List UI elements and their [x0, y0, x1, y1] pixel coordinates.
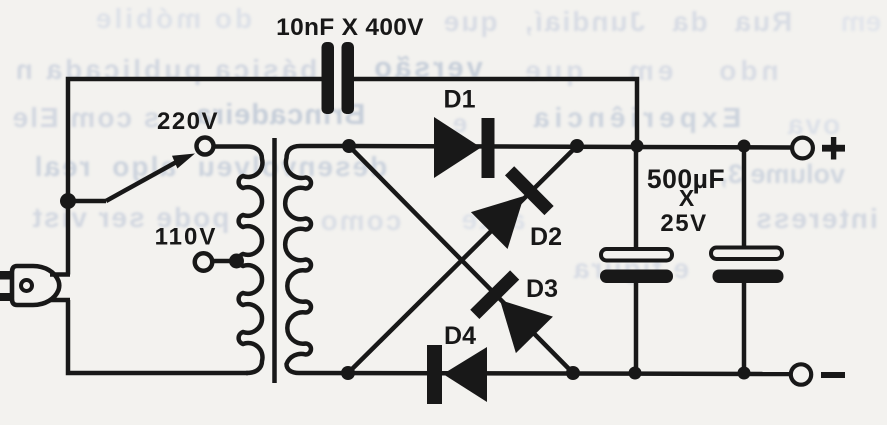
svg-text:D1: D1: [444, 86, 476, 114]
terminal: - output circle: [791, 364, 811, 384]
node: C1 bottom junction: [629, 367, 642, 380]
wire: left bus bottom + primary bottom return: [68, 300, 248, 373]
capacitor C2 500uF bottom plate: [713, 270, 784, 284]
capacitor C1 500uF top plate: [601, 249, 672, 261]
wire: plug bottom lead: [50, 298, 70, 303]
capacitor C1 500uF bottom plate: [600, 270, 673, 284]
svg-text:X: X: [679, 185, 695, 211]
wire: capacitor C2 bottom lead: [742, 282, 747, 373]
wire: capacitor C1 top lead: [634, 146, 639, 250]
node: C2 bottom junction: [738, 367, 751, 380]
switch arrowhead: [172, 154, 195, 169]
capacitor 10nF plates: [322, 42, 355, 114]
svg-text:10nF X 400V: 10nF X 400V: [276, 14, 424, 41]
node C: bridge bottom-left junction: [341, 366, 355, 380]
wire: switch arm to 220V terminal: [106, 160, 180, 201]
wire: DC + top rail: [346, 146, 792, 148]
label: 500uF X 25V: [647, 164, 725, 237]
wire: DC - bottom rail: [301, 373, 791, 374]
node A: bridge top-left junction: [342, 139, 356, 153]
transformer T1 core: [272, 138, 277, 383]
wire: capacitor C1 bottom lead: [634, 282, 639, 373]
svg-text:D4: D4: [444, 322, 476, 350]
wire: plug top lead: [50, 272, 70, 277]
transformer T1 primary winding: [214, 147, 262, 374]
terminal: 220V tap circle: [197, 138, 214, 155]
AC plug P1 prongs: [0, 271, 12, 301]
AC plug P1 body: [12, 266, 59, 305]
terminal: + output circle: [792, 138, 813, 159]
wire: left bus top + AC top wire to 10nF capacitor: [68, 79, 323, 275]
wire: 10nF capacitor right plate to + rail corner: [353, 79, 637, 146]
svg-text:D2: D2: [530, 223, 562, 251]
node D: bridge bottom-right junction: [566, 366, 580, 380]
node: C2 top junction: [738, 140, 751, 153]
wire: bridge diagonal node C to node B (D2 branch): [348, 146, 577, 373]
diode D2: [470, 166, 554, 250]
terminal: 110V tap circle: [195, 253, 213, 271]
wire: switch common stub: [68, 199, 106, 204]
wire: capacitor C2 top lead: [742, 146, 747, 248]
diode D4: [427, 345, 487, 404]
node: primary tap junction: [229, 254, 244, 269]
label: + sign: [822, 137, 845, 160]
svg-text:25V: 25V: [660, 210, 707, 237]
svg-text:D3: D3: [526, 275, 558, 303]
wire: 110V terminal to primary tap: [213, 259, 237, 264]
node B: bridge top-right junction: [570, 139, 584, 153]
capacitor C2 500uF top plate: [711, 248, 782, 260]
transformer T1 secondary winding: [285, 146, 346, 373]
node: C1 top junction: [631, 140, 644, 153]
AC plug P1 inner hole: [21, 280, 32, 291]
background bleed-through text from reverse page (decorative): [0, 0, 887, 1]
diode D1: [434, 117, 495, 178]
diode D3: [470, 270, 554, 354]
label: - sign: [821, 372, 845, 378]
svg-text:220V: 220V: [157, 108, 219, 135]
wire: bridge diagonal node A to node D (D3 branch): [349, 146, 573, 373]
svg-text:110V: 110V: [155, 224, 218, 251]
node: switch common junction: [60, 193, 76, 209]
